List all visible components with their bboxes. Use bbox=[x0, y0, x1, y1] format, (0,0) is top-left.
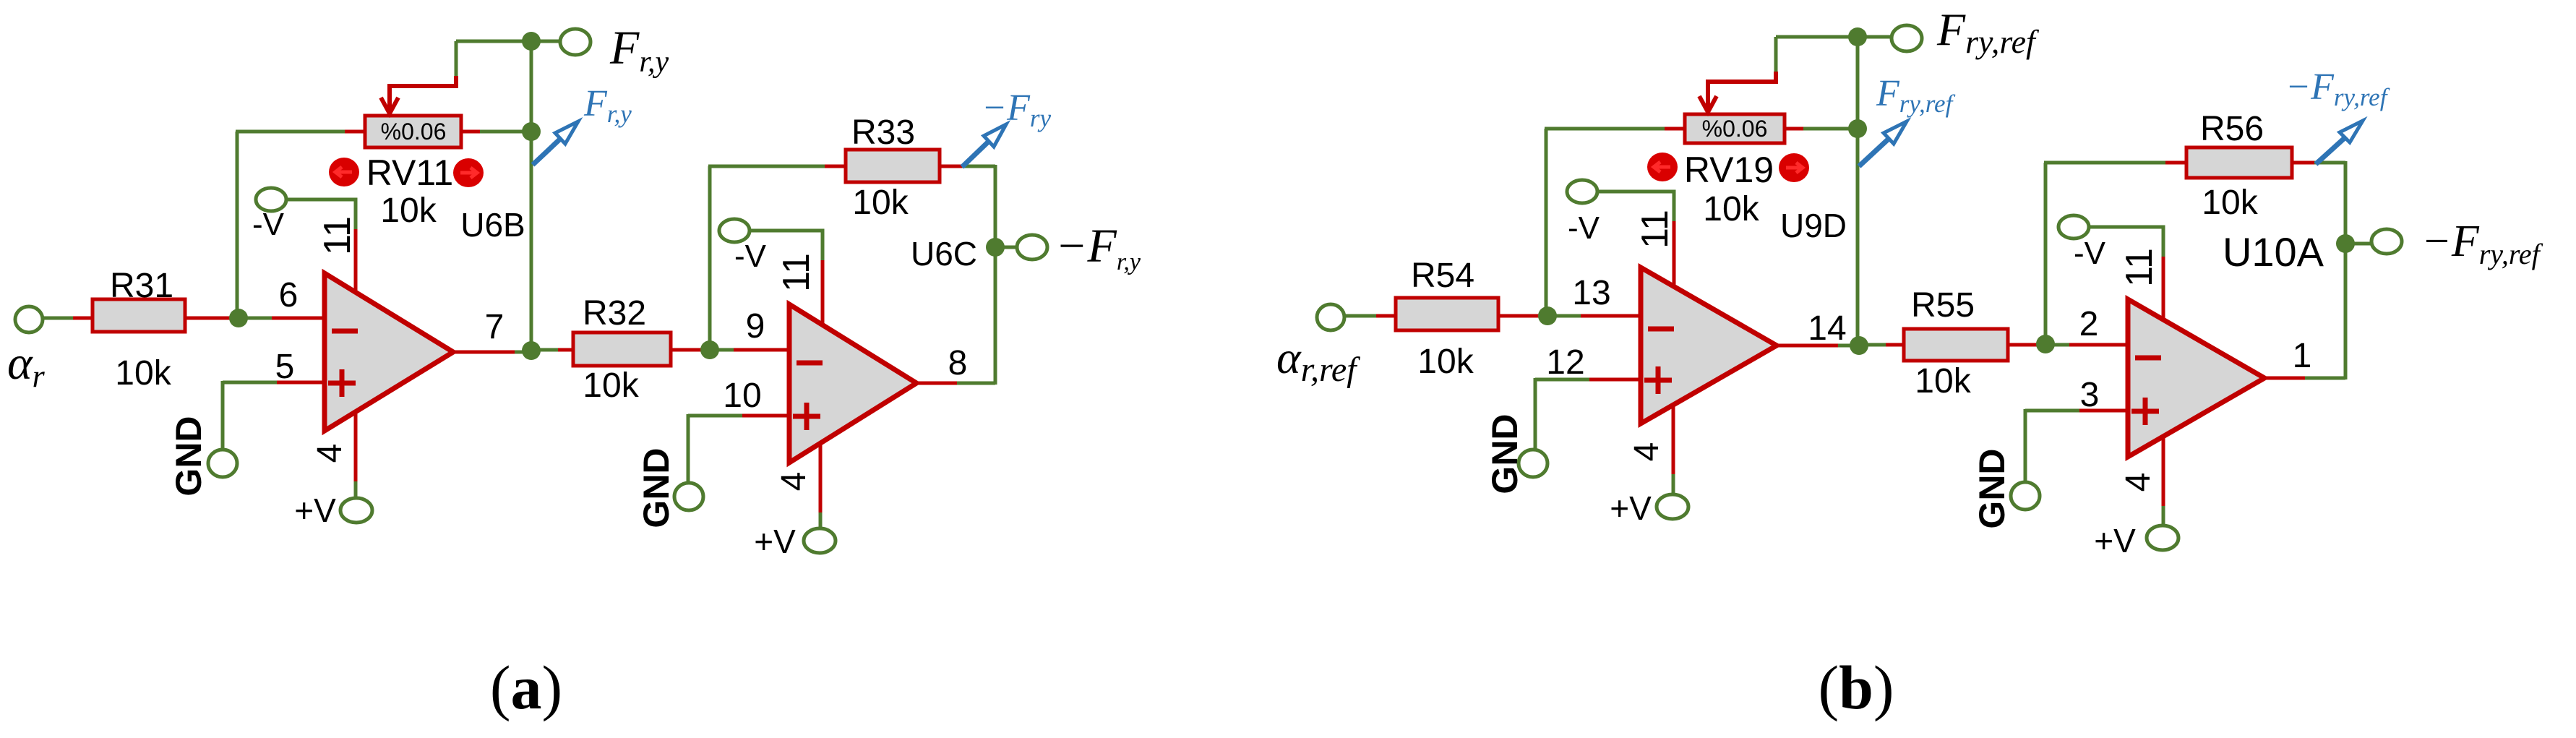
wire output bbox=[453, 351, 515, 354]
svg-text:4: 4 bbox=[1628, 442, 1666, 462]
svg-text:13: 13 bbox=[1572, 274, 1610, 312]
adjust icon right bbox=[453, 158, 484, 187]
svg-text:−Fry,ref: −Fry,ref bbox=[2285, 66, 2390, 111]
-V terminal bbox=[719, 219, 750, 242]
wire to GND terminal bbox=[221, 381, 225, 452]
svg-text:10k: 10k bbox=[2202, 184, 2258, 222]
svg-text:10k: 10k bbox=[852, 184, 909, 222]
minus symbol bbox=[1648, 327, 1674, 332]
svg-text:RV19: RV19 bbox=[1684, 150, 1774, 190]
signal arrow blue bbox=[2316, 129, 2354, 164]
svg-text:1: 1 bbox=[2293, 337, 2312, 375]
wire non-inverting input bbox=[223, 381, 278, 385]
svg-text:(a): (a) bbox=[490, 653, 562, 722]
wire main vertical bbox=[1856, 37, 1860, 346]
svg-text:5: 5 bbox=[275, 348, 295, 386]
svg-text:GND: GND bbox=[636, 447, 677, 528]
wire -V to pin 11 bbox=[285, 199, 356, 230]
svg-text:10k: 10k bbox=[1417, 343, 1474, 381]
resistor R54 bbox=[1396, 298, 1498, 330]
svg-text:U9D: U9D bbox=[1780, 207, 1847, 244]
adjust icon right bbox=[1779, 153, 1809, 182]
wire to GND terminal bbox=[687, 414, 690, 486]
wire feedback top bbox=[2044, 161, 2166, 165]
svg-text:+V: +V bbox=[2094, 522, 2136, 559]
wire to GND terminal bbox=[2024, 409, 2027, 485]
op-amp U10A bbox=[2128, 299, 2264, 457]
wire input bbox=[43, 317, 74, 320]
svg-text:U6B: U6B bbox=[460, 206, 525, 244]
svg-text:10k: 10k bbox=[1915, 362, 1971, 400]
svg-text:10k: 10k bbox=[583, 366, 639, 405]
input terminal alpha_r bbox=[15, 306, 43, 332]
op-amp U9D bbox=[1641, 267, 1777, 424]
wire feedback left vertical bbox=[1546, 313, 1547, 317]
+V terminal bbox=[1657, 494, 1688, 519]
+V terminal bbox=[2147, 525, 2178, 550]
adjust icon left bbox=[1647, 153, 1678, 181]
+V terminal bbox=[804, 528, 836, 553]
wire to inverting node bbox=[1498, 314, 1543, 318]
svg-text:8: 8 bbox=[948, 344, 968, 382]
node pot junction bbox=[1848, 119, 1867, 138]
wire to inverting node bbox=[671, 348, 705, 352]
wire feedback left vertical bbox=[708, 166, 712, 350]
-V terminal bbox=[1567, 180, 1597, 203]
svg-text:+V: +V bbox=[754, 523, 796, 560]
svg-text:-V: -V bbox=[2074, 236, 2106, 271]
node inverting input junction bbox=[229, 309, 248, 327]
signal arrow F bbox=[1859, 130, 1898, 166]
wire from previous stage bbox=[540, 348, 559, 352]
svg-text:U6C: U6C bbox=[911, 235, 977, 273]
svg-text:3: 3 bbox=[2080, 376, 2100, 414]
svg-text:−Fry,ref: −Fry,ref bbox=[2421, 217, 2543, 270]
wire top horizontal bbox=[1776, 35, 1894, 39]
wiper arrowhead bbox=[1699, 96, 1717, 112]
wire feedback right bbox=[2292, 161, 2315, 165]
svg-text:11: 11 bbox=[1634, 210, 1676, 249]
svg-text:αr: αr bbox=[7, 337, 46, 394]
svg-text:2: 2 bbox=[2079, 305, 2099, 343]
signal arrow blue bbox=[962, 133, 997, 167]
node output junction bbox=[522, 341, 541, 360]
wire non-inverting input bbox=[2025, 409, 2080, 413]
output terminal F_r,y bbox=[560, 29, 591, 55]
svg-text:−Fr,y: −Fr,y bbox=[1055, 220, 1141, 275]
svg-text:11: 11 bbox=[776, 253, 817, 292]
wire non-inverting input bbox=[1535, 378, 1590, 382]
resistor R32 bbox=[573, 332, 671, 366]
resistor R56 bbox=[2186, 147, 2292, 178]
svg-text:R54: R54 bbox=[1411, 257, 1474, 295]
wire output bbox=[916, 382, 958, 385]
node pot junction bbox=[522, 122, 541, 141]
svg-text:10k: 10k bbox=[1703, 190, 1759, 228]
wire node to op-amp inverting input bbox=[1547, 314, 1581, 318]
wire to output terminal bbox=[2345, 242, 2374, 246]
wire input bbox=[1344, 314, 1377, 318]
svg-text:GND: GND bbox=[1485, 413, 1525, 494]
svg-text:4: 4 bbox=[775, 472, 813, 492]
resistor R33 bbox=[846, 150, 940, 182]
op-amp U6C bbox=[789, 304, 916, 463]
wire feedback top bbox=[1545, 127, 1665, 131]
svg-text:(b): (b) bbox=[1818, 653, 1894, 722]
output terminal &#8722;F bbox=[1017, 235, 1047, 259]
svg-text:Fr,y: Fr,y bbox=[609, 22, 669, 79]
svg-text:%0.06: %0.06 bbox=[381, 119, 447, 145]
svg-text:11: 11 bbox=[317, 216, 359, 255]
wire output bbox=[2264, 377, 2306, 380]
minus symbol bbox=[797, 361, 823, 366]
wire top horizontal bbox=[456, 40, 562, 43]
node output junction bbox=[1850, 336, 1868, 355]
wire feedback left vertical bbox=[2044, 163, 2048, 344]
minus symbol bbox=[2135, 356, 2161, 361]
svg-text:Fry,ref: Fry,ref bbox=[1936, 4, 2040, 60]
GND terminal bbox=[674, 483, 703, 510]
wire output vertical bbox=[994, 165, 997, 385]
op-amp U6B bbox=[325, 273, 453, 431]
svg-text:9: 9 bbox=[746, 307, 765, 346]
output terminal F_ry,ref bbox=[1892, 25, 1922, 51]
svg-text:-V: -V bbox=[252, 207, 285, 242]
input terminal alpha_r,ref bbox=[1317, 304, 1344, 330]
svg-text:%0.06: %0.06 bbox=[1702, 116, 1768, 142]
resistor R31 bbox=[93, 299, 185, 332]
wire to output terminal bbox=[995, 246, 1019, 249]
svg-text:10k: 10k bbox=[115, 354, 171, 392]
wire pin 4 to +V bbox=[819, 443, 823, 513]
svg-text:11: 11 bbox=[2118, 248, 2160, 287]
svg-text:−Fry: −Fry bbox=[982, 87, 1051, 132]
svg-text:+V: +V bbox=[294, 492, 336, 529]
svg-text:-V: -V bbox=[1568, 210, 1600, 246]
output terminal &#8722;F bbox=[2371, 229, 2402, 254]
wire pin 4 to +V bbox=[354, 412, 358, 482]
svg-text:RV11: RV11 bbox=[366, 153, 453, 193]
wire output bbox=[1777, 344, 1839, 348]
minus symbol bbox=[332, 329, 358, 334]
node inverting input junction bbox=[700, 340, 719, 359]
svg-text:+V: +V bbox=[1610, 489, 1652, 527]
wire output vertical bbox=[2344, 161, 2348, 379]
wire feedback top bbox=[236, 130, 345, 134]
svg-text:R56: R56 bbox=[2200, 110, 2264, 148]
svg-text:-V: -V bbox=[734, 239, 767, 274]
node output junction bbox=[2336, 234, 2355, 253]
wire -V to pin 11 bbox=[1597, 192, 1674, 222]
+V terminal bbox=[340, 498, 372, 523]
signal arrow F bbox=[533, 130, 570, 165]
plus symbol bbox=[328, 381, 356, 386]
wire pot right bbox=[1785, 127, 1804, 131]
wire wiper bbox=[455, 41, 458, 77]
wire feedback right bbox=[940, 165, 963, 168]
svg-text:GND: GND bbox=[168, 416, 209, 496]
GND terminal bbox=[1519, 450, 1547, 477]
wire to inverting node bbox=[2008, 343, 2041, 347]
svg-text:R32: R32 bbox=[583, 294, 646, 332]
plus symbol bbox=[793, 414, 820, 419]
node inverting input junction bbox=[1538, 306, 1557, 325]
-V terminal bbox=[256, 188, 286, 211]
wire main vertical bbox=[530, 41, 533, 351]
GND terminal bbox=[208, 450, 237, 477]
svg-text:αr,ref: αr,ref bbox=[1276, 332, 1360, 389]
node top junction bbox=[522, 32, 541, 51]
svg-text:U10A: U10A bbox=[2223, 229, 2324, 275]
wiper arrowhead bbox=[381, 98, 398, 113]
wire to inverting node bbox=[185, 317, 234, 320]
svg-text:10k: 10k bbox=[380, 192, 437, 230]
svg-text:7: 7 bbox=[485, 308, 505, 346]
potentiometer RV19 bbox=[1685, 114, 1785, 143]
svg-text:GND: GND bbox=[1972, 448, 2012, 528]
wire node to op-amp inverting input bbox=[239, 317, 272, 320]
GND terminal bbox=[2011, 482, 2040, 510]
svg-text:Fry,ref: Fry,ref bbox=[1876, 73, 1956, 118]
plus symbol bbox=[1644, 378, 1672, 383]
wire to GND terminal bbox=[1534, 378, 1537, 452]
potentiometer RV11 bbox=[365, 116, 461, 147]
wire feedback top bbox=[708, 165, 825, 168]
svg-text:14: 14 bbox=[1808, 309, 1846, 348]
wire from previous stage bbox=[1868, 343, 1886, 347]
wire node to op-amp inverting input bbox=[2045, 343, 2070, 347]
wire -V to pin 11 bbox=[749, 231, 823, 261]
wire pin 4 to +V bbox=[1672, 405, 1675, 475]
svg-text:Fr,y: Fr,y bbox=[583, 83, 632, 128]
svg-text:R33: R33 bbox=[851, 113, 915, 152]
wire pot right bbox=[461, 130, 481, 134]
resistor R55 bbox=[1904, 329, 2008, 361]
wire wiper bbox=[1774, 37, 1778, 72]
wire -V to pin 11 bbox=[2088, 227, 2163, 257]
node output junction bbox=[986, 238, 1005, 257]
node top junction bbox=[1848, 27, 1867, 46]
-V terminal bbox=[2058, 215, 2089, 239]
svg-text:R55: R55 bbox=[1911, 286, 1975, 325]
wire node to op-amp inverting input bbox=[710, 348, 734, 352]
svg-text:R31: R31 bbox=[110, 267, 173, 305]
svg-text:4: 4 bbox=[311, 444, 349, 463]
adjust icon left bbox=[329, 158, 359, 186]
wire non-inverting input bbox=[688, 414, 743, 418]
svg-text:10: 10 bbox=[723, 377, 761, 415]
plus symbol bbox=[2131, 409, 2159, 414]
svg-text:12: 12 bbox=[1546, 343, 1584, 382]
wire feedback left vertical bbox=[237, 315, 239, 319]
wire pin 4 to +V bbox=[2162, 437, 2165, 507]
svg-text:4: 4 bbox=[2119, 473, 2158, 492]
node inverting input junction bbox=[2036, 335, 2055, 353]
svg-text:6: 6 bbox=[279, 276, 299, 314]
